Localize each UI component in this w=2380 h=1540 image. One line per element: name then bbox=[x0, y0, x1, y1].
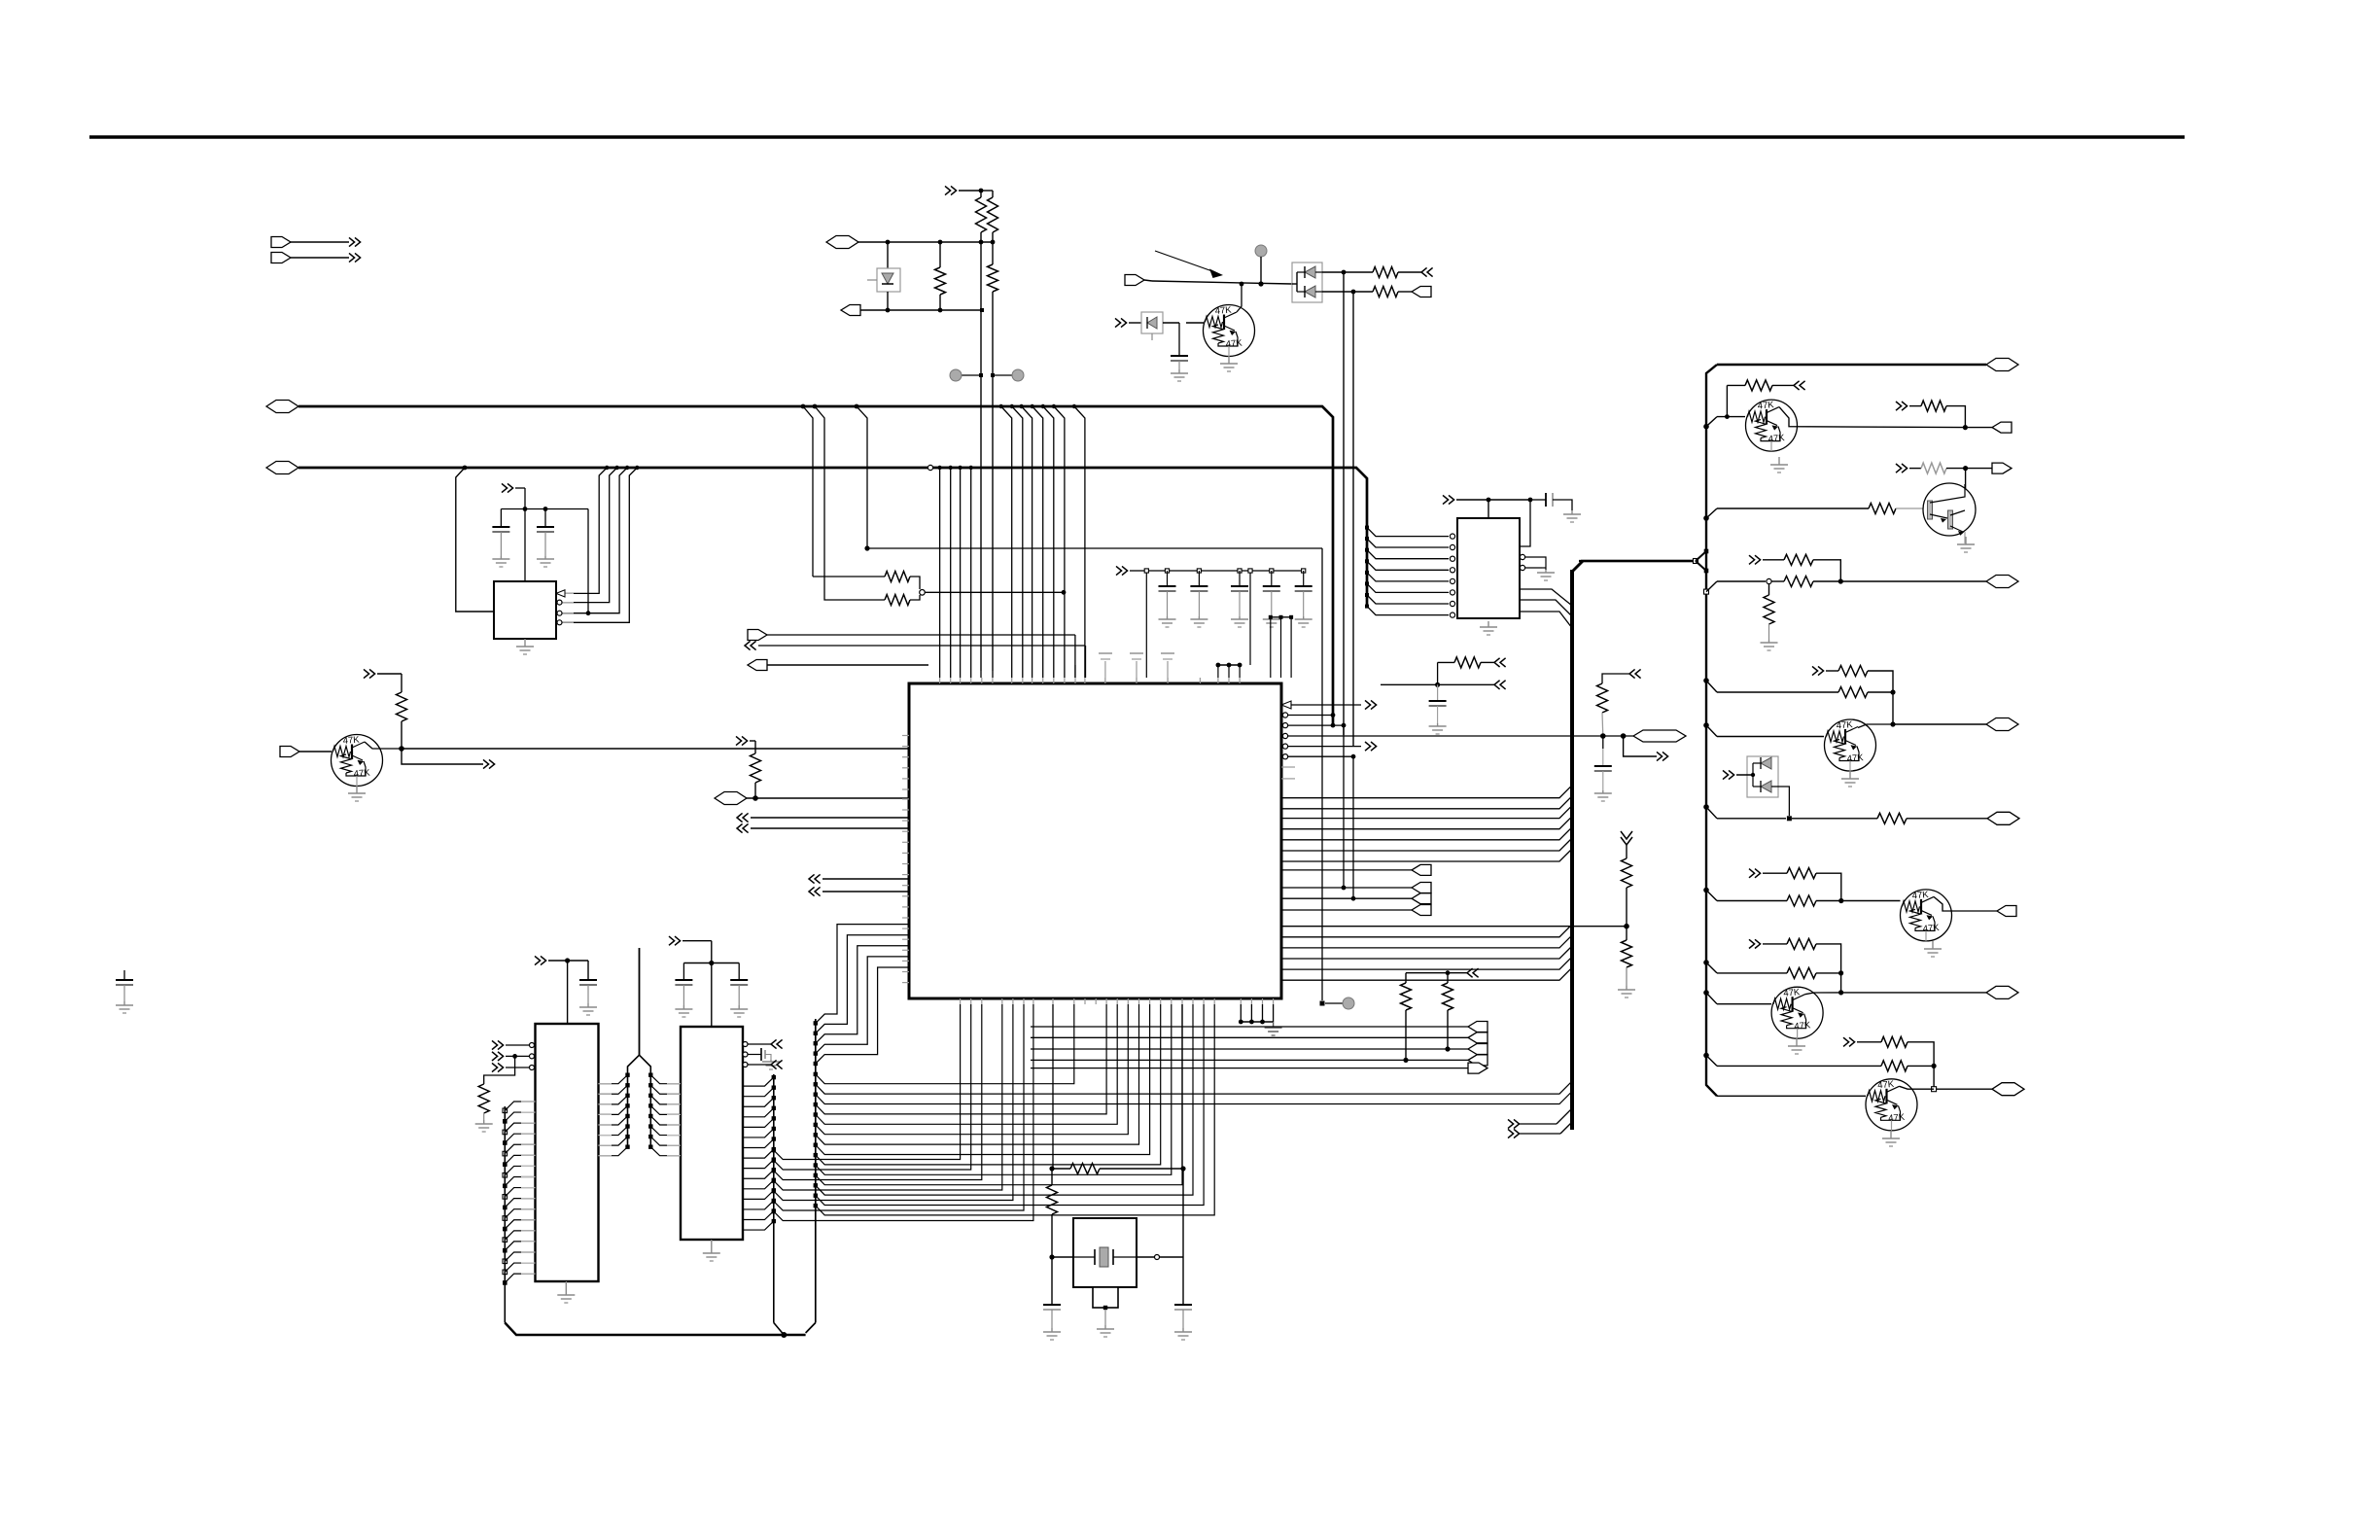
wire D4 out bbox=[1771, 787, 1789, 816]
wire to >> 778 bbox=[1624, 736, 1657, 756]
>> from Q1 bbox=[483, 759, 489, 768]
crystal Y1 bbox=[1073, 1256, 1095, 1258]
resistor R8 bbox=[885, 572, 910, 582]
capacitor C16 bbox=[123, 970, 125, 980]
U4 pin stub gray bbox=[521, 1208, 536, 1210]
resistor R30 bbox=[1787, 967, 1816, 978]
MCU right pin wire to data bus bbox=[1281, 806, 1572, 819]
thick net to rail bbox=[1581, 560, 1696, 563]
U4 pin wire bbox=[505, 1263, 535, 1272]
addr wire to U5 bbox=[650, 1105, 681, 1114]
port bottom bbox=[1468, 1032, 1487, 1043]
>> to U4 pin bbox=[492, 1040, 498, 1049]
U5 right pin wire bbox=[743, 1139, 774, 1148]
pad via bbox=[1320, 1001, 1325, 1006]
U5 right pin wire bbox=[743, 1108, 774, 1117]
rail feed fork bbox=[1604, 560, 1696, 562]
wire fan to U3 pin bbox=[1367, 539, 1449, 547]
rail tap Q3 bbox=[1703, 424, 1709, 430]
U5 right pin wire bbox=[743, 1190, 774, 1199]
wire MCU bottom pin to data bus bbox=[774, 1004, 961, 1160]
resistor R20 bbox=[1921, 463, 1946, 473]
>> from MCU 767 bbox=[1365, 742, 1371, 751]
ground Q8 bbox=[1890, 1131, 1892, 1138]
bus B wire to MCU bottom pin bbox=[816, 1004, 1161, 1165]
capacitor C7 bbox=[1270, 569, 1274, 573]
<< R11 bbox=[1467, 968, 1473, 977]
ring R21 bbox=[1767, 578, 1771, 583]
MCU right pin wire to data bus bbox=[1281, 817, 1572, 829]
crystal box bbox=[1073, 1218, 1137, 1287]
wire MCU left pin to busB bbox=[816, 967, 909, 1064]
MCU right pin wire to data bus bbox=[1281, 957, 1572, 969]
bus B pad bbox=[814, 1153, 818, 1157]
IC U4 box bbox=[536, 1024, 599, 1281]
U5 right pin wire bbox=[743, 1088, 774, 1097]
wire vnet 1360 bbox=[1321, 548, 1323, 1000]
wire R13 down bbox=[1437, 662, 1439, 684]
wire U3 vcc bbox=[1487, 500, 1489, 518]
wire 757 jct2 bbox=[1603, 735, 1633, 737]
resistor R2 bbox=[976, 197, 987, 232]
addr pad left bbox=[625, 1073, 629, 1077]
wire R7 to port bbox=[1398, 291, 1412, 293]
IC U2 (MCU) box bbox=[909, 683, 1281, 998]
port out 439 bbox=[1968, 427, 1992, 429]
addr wire to U4 bbox=[598, 1116, 627, 1125]
right rail bbox=[1706, 365, 1717, 1096]
wire net1 tail bbox=[1343, 725, 1345, 888]
U4 pin stub gray bbox=[521, 1187, 536, 1189]
wire to port bbox=[1031, 1059, 1468, 1061]
MCU right pin arrow bbox=[1281, 701, 1291, 709]
U4 ring pin bbox=[530, 1054, 535, 1059]
port J1 with wire bbox=[271, 237, 291, 248]
MCU right pin wire to port bbox=[1281, 869, 1412, 871]
wire R4 top bbox=[939, 242, 941, 267]
ground R16 bbox=[1626, 986, 1627, 990]
bus B pad bbox=[814, 1072, 818, 1076]
wire to R15 bbox=[1626, 845, 1627, 858]
bus B wire to MCU bottom pin bbox=[816, 1004, 1204, 1206]
wire R33 gnd bbox=[483, 1113, 485, 1120]
annotation light arrow bbox=[1155, 251, 1212, 271]
svg-text:47K: 47K bbox=[1767, 433, 1785, 444]
U1 pin stub 2 bbox=[556, 602, 574, 604]
ground R33 bbox=[483, 1120, 485, 1124]
<< from R6 bbox=[1421, 267, 1427, 276]
arrow port down bbox=[1621, 837, 1632, 845]
caps rail bbox=[1143, 570, 1304, 572]
>> to D4 bbox=[1723, 770, 1729, 779]
addr pad left bbox=[625, 1083, 629, 1087]
port from MCU bbox=[1412, 893, 1431, 904]
ground C4 bbox=[1167, 616, 1169, 619]
resistor R27 bbox=[1787, 868, 1816, 879]
wire R20 to node bbox=[1946, 468, 1966, 470]
addr wire to U4 bbox=[598, 1147, 627, 1156]
U3 left ring pin bbox=[1450, 568, 1454, 573]
>> port 778 bbox=[1657, 752, 1662, 760]
MCU right pin wire to data bus bbox=[1281, 935, 1572, 948]
wire R21 junction bbox=[1813, 580, 1840, 582]
wire bus2 drop 3 to U1 pin bbox=[561, 468, 627, 613]
MCU right pin wire to data bus bbox=[1281, 925, 1572, 937]
MCU right pin wire to data bus bbox=[1281, 827, 1572, 840]
wire Q8 collector bbox=[1900, 1086, 1935, 1089]
resistor R15 bbox=[1622, 858, 1632, 888]
U3 right ring pin B bbox=[1520, 565, 1524, 570]
<< wire 852 bbox=[737, 823, 743, 832]
wire bus1 drop b bbox=[857, 406, 867, 548]
transistor Q5 47K bbox=[1825, 719, 1876, 771]
<< R13 bbox=[1481, 661, 1494, 663]
ground MCU bbox=[1273, 1022, 1275, 1028]
U5 right pin wire bbox=[743, 1201, 774, 1209]
wire R10 to oval node bbox=[754, 783, 756, 798]
wire drop a to R8 bbox=[813, 576, 885, 577]
ground C13 bbox=[738, 1005, 740, 1009]
capacitor C4 bbox=[1165, 569, 1169, 573]
port bottom bbox=[1468, 1055, 1487, 1066]
wire D3 to Q2 bbox=[1163, 322, 1179, 324]
oval out 375 bbox=[1986, 359, 2018, 371]
gray via TP4 bbox=[1343, 997, 1354, 1009]
resistor R36 bbox=[1597, 683, 1608, 713]
wire Q4 collector up bbox=[1965, 469, 1967, 489]
MCU ring pin 757 long wire bbox=[1282, 733, 1287, 738]
rail tap Q8r bbox=[1703, 1053, 1709, 1059]
wire R30 junction bbox=[1816, 972, 1841, 974]
port bottom last bbox=[1468, 1063, 1487, 1073]
addr wire to U5 bbox=[650, 1147, 681, 1156]
ground Q7 bbox=[1796, 1038, 1798, 1046]
IC U1 box bbox=[494, 581, 556, 639]
wire R25 junction bbox=[1868, 691, 1893, 693]
capacitor C17 bbox=[1602, 736, 1604, 749]
resistor R29 bbox=[1787, 938, 1816, 949]
U4 pin pad bbox=[503, 1151, 507, 1156]
>> to R31 bbox=[1843, 1037, 1849, 1046]
U5 right pin wire bbox=[743, 1211, 774, 1220]
capacitor C5 bbox=[1197, 569, 1201, 573]
wire R2 top bbox=[980, 191, 982, 197]
resistor R10 bbox=[751, 753, 761, 783]
wire to port bbox=[1031, 1026, 1468, 1028]
transistor Q1 47K bbox=[332, 735, 383, 787]
addr bus Y bbox=[639, 948, 641, 1055]
resistor R31 bbox=[1881, 1036, 1907, 1047]
port from R7 bbox=[1412, 287, 1431, 297]
top border rule bbox=[89, 135, 2185, 139]
U4 pin wire bbox=[505, 1209, 535, 1218]
wire bus2 to MCU top pin bbox=[939, 468, 941, 678]
MCU vcc pins tie bbox=[1218, 664, 1240, 666]
wire MCU pin to xtal left bbox=[1052, 1004, 1054, 1169]
U4 pin stub gray bbox=[521, 1219, 536, 1221]
wire out 1021 bbox=[1841, 992, 1986, 994]
wire box right bbox=[1137, 1256, 1183, 1258]
<< wire 904 bbox=[809, 874, 815, 883]
ground Q5 bbox=[1849, 771, 1851, 779]
wire R17 up bbox=[1726, 385, 1728, 416]
U1 pin stub 4 bbox=[556, 621, 574, 623]
rail tap Q4 bbox=[1703, 515, 1709, 521]
bus B wire to MCU bottom pin bbox=[816, 1004, 1139, 1144]
capacitor C15 bbox=[1174, 1304, 1192, 1306]
wire R16 to gnd bbox=[1626, 967, 1627, 986]
wire div out bbox=[1840, 580, 1986, 582]
U4 pin wire bbox=[505, 1242, 535, 1250]
U4 pin pad bbox=[503, 1195, 507, 1200]
addr pad right bbox=[648, 1114, 652, 1118]
MCU top pin wire 1106 bbox=[1074, 665, 1076, 678]
addr wire to U5 bbox=[650, 1075, 681, 1084]
wire fan to U3 pin bbox=[1367, 550, 1449, 559]
ring node bbox=[920, 590, 926, 596]
U5 ring pin a bbox=[743, 1042, 748, 1047]
bus B wire to MCU bottom pin bbox=[816, 1004, 1074, 1084]
wire box left bbox=[1052, 1256, 1073, 1258]
ground C11 bbox=[587, 1003, 589, 1007]
addr wire to U5 bbox=[650, 1096, 681, 1104]
port bottom bbox=[1468, 1022, 1487, 1032]
wire to port bbox=[1031, 1036, 1468, 1038]
U4 pin wire bbox=[505, 1188, 535, 1197]
wire tab gnd bbox=[1104, 1310, 1106, 1325]
U4 pin pad bbox=[503, 1227, 507, 1232]
wire zener to line B bbox=[887, 292, 889, 310]
resistor R16 bbox=[1626, 927, 1627, 940]
wire to R21 bbox=[1717, 580, 1766, 582]
addr wire to U5 bbox=[650, 1085, 681, 1094]
wire zener drop bbox=[887, 242, 889, 268]
wire U5 vcc down bbox=[711, 963, 713, 1028]
wire R36 tail bbox=[1601, 713, 1604, 736]
oval out 1021 bbox=[1986, 986, 2018, 998]
resistor R25 bbox=[1838, 687, 1868, 698]
MCU left pin stubs bbox=[902, 735, 909, 737]
wire R31 corner bbox=[1907, 1042, 1934, 1089]
bus B wire to data bus bbox=[816, 1092, 1572, 1104]
resistor R21 bbox=[1771, 580, 1784, 582]
wire MCU bottom pin to data bus bbox=[774, 1004, 1024, 1210]
addr wire to U4 bbox=[598, 1085, 627, 1094]
wire R18 corner bbox=[1946, 406, 1965, 428]
>> to R2/R3 bbox=[945, 186, 951, 194]
addr pad right bbox=[648, 1094, 652, 1098]
wire R13 left bbox=[1438, 661, 1454, 663]
ground below Q1 bbox=[356, 786, 358, 793]
>> to R22 bbox=[1749, 555, 1755, 564]
resistor R28 bbox=[1787, 895, 1816, 906]
addr pad left bbox=[625, 1094, 629, 1098]
rail tap R30 bbox=[1703, 960, 1709, 965]
addr wire to U4 bbox=[598, 1127, 627, 1136]
addr pad right bbox=[648, 1135, 652, 1138]
wire MCU left pin to busB bbox=[816, 946, 909, 1043]
wire R26 out bbox=[1907, 818, 1987, 820]
wire xtal right down bbox=[1182, 1169, 1184, 1305]
transistor Q2 47K bbox=[1204, 305, 1255, 357]
U4 pin wire bbox=[505, 1112, 535, 1121]
U4 pin stub gray bbox=[521, 1143, 536, 1145]
IC U5 box bbox=[681, 1027, 743, 1240]
ground R23 bbox=[1768, 640, 1770, 643]
capacitor C9 bbox=[1530, 499, 1546, 501]
port out 481 bbox=[1968, 468, 1992, 470]
MCU right pin wire to data bus bbox=[1281, 967, 1572, 980]
U3 left ring pin bbox=[1450, 556, 1454, 561]
wire MCU bottom pin to data bus bbox=[774, 1004, 1013, 1201]
U1 rail right drop bbox=[587, 509, 589, 613]
transistor Q8 47K bbox=[1866, 1079, 1917, 1131]
ground U4 bbox=[565, 1281, 567, 1295]
diode pair D4 box bbox=[1747, 756, 1778, 797]
wire Q6 collector bbox=[1934, 896, 1997, 911]
MCU right pin wire to port bbox=[1281, 887, 1412, 889]
addr pad left bbox=[625, 1124, 629, 1128]
wire Q5 collector bbox=[1858, 724, 1893, 728]
resistor R24 bbox=[1838, 666, 1868, 677]
gray via TP2 bbox=[1012, 369, 1024, 381]
bus B wire to MCU bottom pin bbox=[816, 1004, 1182, 1185]
wire via to IR line bbox=[1260, 257, 1262, 284]
bus B wire to MCU bottom pin bbox=[816, 1004, 1117, 1124]
wire U4 vcc down bbox=[567, 961, 569, 1024]
>> caps rail bbox=[1116, 566, 1122, 575]
vcc tie2 bbox=[1271, 616, 1291, 618]
wire MCU bottom pin to data bus bbox=[774, 1004, 1033, 1221]
resistor R19 bbox=[1869, 504, 1896, 514]
resistor R34 bbox=[1052, 1168, 1070, 1170]
gray nc pin 1201 bbox=[1167, 661, 1169, 683]
U3 left ring pin bbox=[1450, 612, 1454, 617]
ground C8 bbox=[1303, 616, 1305, 619]
U4 pin wire bbox=[505, 1166, 535, 1174]
U4 pin wire bbox=[505, 1134, 535, 1142]
rail tap Q5 bbox=[1703, 722, 1709, 728]
svg-text:47K: 47K bbox=[1888, 1112, 1906, 1124]
ground Y1 bbox=[1104, 1325, 1106, 1329]
wire IR line bbox=[1152, 281, 1292, 284]
off-page >> for J1 bbox=[349, 237, 355, 246]
>> port bus b bbox=[1508, 1129, 1514, 1137]
wire hnet 609 bbox=[925, 591, 1064, 593]
via stub right bbox=[993, 374, 1012, 376]
U4 pin stub gray bbox=[521, 1262, 536, 1264]
ground C15 bbox=[1182, 1328, 1184, 1332]
bus B pad bbox=[814, 1082, 818, 1086]
addr pad left bbox=[625, 1144, 629, 1148]
gray nc pin 1136 bbox=[1104, 661, 1106, 683]
rail tap Q7 bbox=[1703, 990, 1709, 996]
wire fan to U3 pin bbox=[1367, 607, 1449, 615]
gray via TP1 bbox=[950, 369, 962, 381]
wire to Q3 base bbox=[1717, 416, 1745, 418]
>> to U5 vcc bbox=[669, 936, 675, 945]
wire bus1 to MCU top pin bbox=[1032, 406, 1043, 678]
wire MCU bottom pin to data bus bbox=[774, 1004, 971, 1170]
wire rail to vcc tie bbox=[1249, 571, 1251, 665]
oval out 757 bbox=[1633, 730, 1686, 742]
ground C3 bbox=[1178, 369, 1180, 373]
U4 pin stub gray bbox=[521, 1251, 536, 1253]
wire U3 out to data bus bbox=[1520, 600, 1572, 616]
U4 pin stub gray bbox=[521, 1165, 536, 1167]
ground C16 bbox=[123, 1001, 125, 1005]
ground Q6 bbox=[1932, 941, 1934, 949]
U5 right pin wire bbox=[743, 1118, 774, 1127]
resistor R4 bbox=[935, 267, 946, 295]
addr wire to U4 bbox=[598, 1075, 627, 1084]
U1 pin arrow bbox=[556, 590, 565, 597]
MCU ring pin 735 bbox=[1282, 713, 1287, 717]
diode pair D2 box bbox=[1292, 262, 1322, 302]
wire vertical net1 bbox=[1343, 272, 1345, 735]
resistor R6 bbox=[1373, 267, 1398, 278]
bus B pad bbox=[814, 1123, 818, 1127]
<< net 704 bbox=[1494, 681, 1500, 689]
wire MCU pin to xtal right bbox=[1181, 1004, 1183, 1169]
ground C12 bbox=[682, 1005, 684, 1009]
wire net 704 bbox=[1381, 683, 1494, 685]
addr wire to U4 bbox=[598, 1105, 627, 1114]
U4 pin pad bbox=[503, 1216, 507, 1221]
wire rail bevel to Q8 base bbox=[1717, 1095, 1866, 1097]
svg-text:47K: 47K bbox=[1794, 1020, 1811, 1032]
MCU ring pin 778 bbox=[1282, 754, 1287, 759]
bus B pad bbox=[814, 1112, 818, 1116]
line A oval bbox=[826, 236, 858, 249]
>> to U1 vcc bbox=[502, 483, 507, 492]
U4 pin wire bbox=[505, 1220, 535, 1229]
<< wire 917 bbox=[809, 887, 815, 895]
transistor Q6 47K bbox=[1901, 890, 1952, 941]
svg-text:47K: 47K bbox=[1846, 752, 1864, 764]
wire R8 right bbox=[910, 577, 920, 589]
U3 left ring pin bbox=[1450, 578, 1454, 583]
U4 pin pad bbox=[503, 1140, 507, 1145]
>> to U4 pin bbox=[492, 1052, 498, 1061]
port from MCU bbox=[1412, 864, 1431, 875]
line B port bbox=[841, 305, 860, 316]
bus B wire to MCU bottom pin bbox=[816, 1004, 1106, 1114]
U4 pin stub gray bbox=[521, 1241, 536, 1242]
U1 pin stub 3 bbox=[556, 612, 574, 614]
U5 right bus bbox=[773, 1074, 775, 1323]
U4 pad bus bbox=[504, 1106, 506, 1323]
<< to R36 bbox=[1629, 669, 1635, 678]
resistor R11 bbox=[1401, 983, 1412, 1010]
zener D1 box bbox=[877, 268, 900, 292]
capacitor C6 bbox=[1238, 569, 1242, 573]
transistor Q7 47K bbox=[1771, 987, 1823, 1038]
bus2 wire bbox=[298, 468, 1367, 608]
bus B wire to MCU bottom pin bbox=[816, 1004, 1214, 1215]
<< R17 bbox=[1772, 384, 1794, 386]
U3 left ring pin bbox=[1450, 601, 1454, 606]
U1 ring pins bbox=[557, 600, 562, 605]
wire to Q5 base bbox=[1717, 736, 1824, 738]
U1 pin stub 1 bbox=[556, 592, 574, 594]
U3 right ring pin A bbox=[1520, 554, 1524, 559]
bus B wire to data bus bbox=[816, 1081, 1572, 1094]
wire R2 down bbox=[980, 232, 982, 671]
ground C7 bbox=[1271, 616, 1273, 619]
transistor Q4 darlington bbox=[1923, 483, 1976, 536]
ground Q3 bbox=[1778, 457, 1780, 465]
